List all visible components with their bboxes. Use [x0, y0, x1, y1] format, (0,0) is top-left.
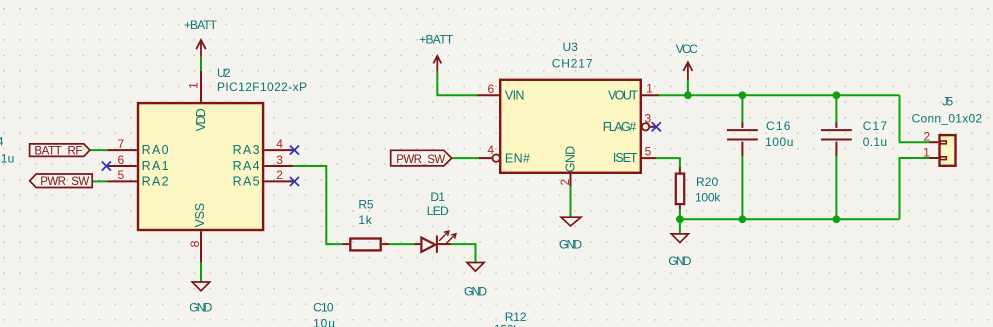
wire R5 to D1: [388, 243, 415, 245]
svg-text:RA3: RA3: [233, 143, 260, 157]
U2 pin 4 RA3: [233, 137, 294, 157]
wire RA4 net U2 pin 3 to R5: [293, 166, 343, 244]
svg-text:BATT_RF: BATT_RF: [34, 145, 82, 157]
svg-text:LED: LED: [427, 204, 449, 218]
global label PWR_SW (left): [30, 174, 93, 188]
svg-text:GND: GND: [559, 238, 582, 252]
J5 pin 1: [923, 146, 946, 160]
ground symbol below R20: [668, 234, 691, 268]
svg-text:8: 8: [188, 240, 202, 247]
regulator U3 body: [500, 80, 641, 173]
U2 pin 7 RA0: [108, 137, 169, 157]
wire VCC top rail from U3 VOUT: [659, 94, 900, 96]
power symbol +BATT (U3): [419, 32, 454, 71]
svg-text:RA5: RA5: [233, 174, 260, 188]
connector J5 body: [940, 135, 956, 166]
svg-text:100k: 100k: [695, 190, 721, 204]
wire PWR_SW to U3 EN#: [452, 157, 481, 159]
capacitor C16: [727, 119, 793, 156]
svg-text:4: 4: [276, 137, 283, 151]
U2 pin 8 VSS: [188, 203, 207, 262]
power symbol +BATT (U2): [184, 18, 218, 56]
U2 pin 5 RA2: [108, 168, 169, 188]
capacitor C17: [821, 119, 887, 156]
svg-text:FLAG#: FLAG#: [603, 120, 637, 134]
no-connect X on U3 pin 3: [652, 122, 661, 131]
ground symbol below D1: [464, 263, 487, 299]
svg-text:+BATT: +BATT: [419, 32, 454, 46]
svg-text:C10: C10: [313, 301, 334, 315]
svg-text:1: 1: [186, 82, 200, 89]
svg-text:GND: GND: [464, 285, 487, 299]
svg-text:VOUT: VOUT: [608, 89, 638, 103]
U2 pin 1 VDD: [186, 71, 208, 131]
junction at C17 top: [833, 91, 841, 99]
wire C17 top: [835, 95, 837, 123]
svg-text:2: 2: [558, 178, 572, 185]
LED D1: [415, 190, 457, 253]
wire C17 bottom: [835, 156, 837, 220]
svg-text:RA1: RA1: [142, 159, 169, 173]
svg-text:J5: J5: [942, 95, 953, 109]
wire BATT_RF to U2 pin 7: [90, 149, 109, 151]
junction at C16 top: [739, 91, 747, 99]
svg-text:5: 5: [645, 145, 652, 159]
svg-text:Conn_01x02: Conn_01x02: [912, 111, 983, 125]
svg-text:0.1u: 0.1u: [863, 135, 887, 149]
svg-text:GND: GND: [189, 301, 212, 315]
svg-text:PWR_SW: PWR_SW: [40, 176, 89, 188]
U3 pin 3 FLAG# (inverted, no-connect): [603, 112, 656, 134]
no-connect X on U2 pin 2: [290, 177, 299, 186]
U2 pin 6 RA1: [108, 153, 169, 173]
wire +BATT to U3 VIN: [437, 71, 478, 95]
U3 pin 5 ISET: [613, 145, 656, 165]
wire C16 bottom: [741, 156, 743, 220]
svg-text:RA0: RA0: [142, 143, 169, 157]
svg-text:U3: U3: [563, 40, 579, 54]
wire VCC stub: [687, 79, 689, 95]
J5 pin 2: [923, 130, 946, 144]
svg-text:100u: 100u: [765, 135, 793, 149]
svg-text:10u: 10u: [313, 317, 335, 327]
ground symbol below U2: [189, 282, 212, 315]
svg-text:2: 2: [276, 168, 283, 182]
svg-text:3: 3: [276, 153, 283, 167]
svg-text:VIN: VIN: [505, 89, 525, 103]
wire J5 pin 1 to bottom rail: [900, 158, 930, 219]
svg-text:1k: 1k: [358, 213, 372, 227]
svg-text:1: 1: [646, 82, 653, 96]
svg-text:R20: R20: [696, 175, 719, 189]
wire bottom rail: [680, 218, 900, 220]
svg-text:VSS: VSS: [193, 203, 207, 228]
global label BATT_RF: [30, 144, 90, 157]
wire U3 ISET to R20: [656, 158, 680, 167]
resistor R5: [343, 197, 389, 250]
svg-text:4: 4: [0, 135, 4, 149]
svg-text:RA4: RA4: [233, 159, 260, 173]
svg-text:EN#: EN#: [505, 151, 530, 165]
wire D1 cathode to GND: [451, 244, 476, 262]
svg-text:1u: 1u: [1, 152, 15, 166]
svg-text:D1: D1: [430, 190, 445, 204]
resistor R20: [676, 167, 722, 209]
junction at C16 bottom: [739, 215, 747, 223]
svg-text:C16: C16: [766, 119, 791, 133]
power symbol VCC: [676, 42, 698, 79]
svg-text:C17: C17: [863, 119, 888, 133]
wire top rail to J5 pin 2: [900, 95, 930, 142]
svg-text:6: 6: [117, 153, 124, 167]
wire C16 top: [741, 95, 743, 123]
wire R20 junction to GND: [679, 219, 681, 234]
svg-text:PIC12F1022-xP: PIC12F1022-xP: [217, 80, 307, 94]
no-connect X on U2 pin 6: [102, 162, 111, 171]
svg-text:7: 7: [117, 137, 124, 151]
ground symbol below U3: [559, 217, 582, 251]
svg-text:CH217: CH217: [552, 56, 593, 70]
wire +BATT to U2 pin 1: [200, 56, 202, 71]
U2 pin 3 RA4: [233, 153, 294, 173]
svg-text:ISET: ISET: [613, 151, 638, 165]
svg-text:5: 5: [117, 168, 124, 182]
wire PWR_SW to U2 pin 5: [92, 180, 108, 182]
U2 pin 2 RA5: [233, 168, 294, 188]
op IC U2 body: [138, 103, 263, 230]
svg-text:1: 1: [923, 146, 930, 160]
U3 pin 2 GND: [558, 146, 578, 186]
svg-text:VDD: VDD: [194, 108, 208, 131]
U3 pin 6 VIN: [478, 82, 525, 103]
junction at VCC: [684, 91, 692, 99]
junction at R20 bottom: [676, 215, 684, 223]
U3 pin 4 EN# (inverted): [479, 143, 530, 165]
svg-text:PWR_SW: PWR_SW: [396, 154, 445, 166]
svg-text:R5: R5: [358, 197, 373, 211]
no-connect X on U2 pin 4: [290, 146, 299, 155]
svg-text:6: 6: [488, 82, 495, 96]
svg-text:3: 3: [644, 112, 651, 126]
svg-text:VCC: VCC: [676, 42, 698, 56]
wire U3 GND pin 2 to GND: [570, 186, 572, 217]
svg-text:RA2: RA2: [142, 174, 169, 188]
wire R20 bottom to rail: [679, 209, 681, 220]
junction at C17 bottom: [833, 215, 841, 223]
svg-text:4: 4: [487, 143, 494, 157]
svg-text:GND: GND: [564, 146, 578, 172]
svg-text:U2: U2: [217, 66, 231, 80]
global label PWR_SW (to EN#): [391, 150, 452, 166]
svg-text:2: 2: [923, 130, 930, 144]
U3 pin 1 VOUT: [608, 82, 659, 103]
svg-text:150k: 150k: [494, 323, 520, 327]
svg-text:+BATT: +BATT: [184, 18, 218, 32]
svg-text:GND: GND: [668, 254, 691, 268]
wire U2 pin 8 to GND: [200, 262, 202, 282]
